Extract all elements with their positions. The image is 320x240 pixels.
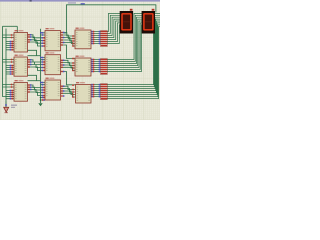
counter/decoder IC U9 xyxy=(76,85,92,104)
clock source symbol xyxy=(4,107,9,112)
wire cascade B1->C2 xyxy=(61,45,76,59)
7-segment display 2 (digit 0) xyxy=(142,11,155,34)
wire A3 top to V3 xyxy=(28,75,41,80)
wire left bus V1 xyxy=(3,26,15,96)
logic state marks B3 lower pins xyxy=(42,97,44,99)
wires U6 to 7-seg display2 bus xyxy=(91,13,142,71)
logic state mark clock node xyxy=(5,104,7,106)
resistor network RN1 xyxy=(101,31,108,47)
wires row3 B3->C3 xyxy=(61,86,76,97)
grid background xyxy=(0,0,160,120)
logic state marks C-col left pins xyxy=(72,35,74,37)
display 1 label xyxy=(130,9,133,11)
junction dots on clock bus xyxy=(40,97,42,99)
ground symbol xyxy=(38,103,42,106)
counter/decoder IC U6 xyxy=(45,80,61,100)
counter/decoder IC U2 xyxy=(14,57,28,76)
logic state marks resistor pins xyxy=(91,31,93,33)
wire V3 to B2 pins xyxy=(41,58,46,60)
wire left bus V2 xyxy=(5,29,7,108)
logic state marks B-col right pins xyxy=(61,32,63,34)
wires row2 A2->B2 xyxy=(28,60,46,71)
wires row3 A3->B3 xyxy=(28,85,46,96)
logic state marks B-col left pins xyxy=(42,37,44,39)
wire branches to A2 left pins xyxy=(3,60,15,75)
wire V3 to B3 pins xyxy=(41,83,46,85)
counter/decoder IC U3 xyxy=(14,83,28,102)
wires U1->U2 row1 xyxy=(28,35,46,46)
wire cascade B2->C3 xyxy=(61,72,76,85)
wire A2 top to V3 xyxy=(28,50,41,55)
wires U3 to 7-seg display1 bus xyxy=(91,13,120,43)
counter/decoder IC U7 xyxy=(75,30,91,49)
IC reference labels xyxy=(15,30,18,31)
wire V3 to B1 pins xyxy=(41,33,46,35)
counter/decoder IC U8 xyxy=(75,58,91,76)
wire clock bus V3 xyxy=(40,29,42,103)
counter/decoder IC U5 xyxy=(45,55,61,75)
counter/decoder IC U4 xyxy=(45,31,61,51)
resistor network RN2 xyxy=(101,59,108,75)
wire branches to A1 left pins xyxy=(3,35,15,50)
wire V3 to B3 lower pins xyxy=(41,98,46,101)
title bar xyxy=(0,0,160,2)
logic state marks A-col right pins xyxy=(28,34,30,36)
clock source label xyxy=(11,105,17,106)
7-segment display 1 (digit 0) xyxy=(120,11,133,34)
wire branches to A3 left pins xyxy=(3,85,15,99)
wires U9 bus to off-page display xyxy=(91,13,160,98)
wires row2 B2->C2 xyxy=(61,60,76,70)
display 2 label xyxy=(152,9,155,11)
logic state marks A-col left pins xyxy=(11,34,13,36)
wire A1 top pin drop xyxy=(16,26,18,32)
resistor network RN3 xyxy=(101,84,108,100)
wire top loop xyxy=(64,5,156,33)
wire top-left horizontal xyxy=(3,25,18,27)
junction marks clock bus xyxy=(40,32,42,34)
wire to clock source xyxy=(5,102,7,108)
counter/decoder IC U1 xyxy=(14,33,28,53)
wires U2->U3 row1 xyxy=(61,33,76,47)
net label top xyxy=(68,2,76,3)
